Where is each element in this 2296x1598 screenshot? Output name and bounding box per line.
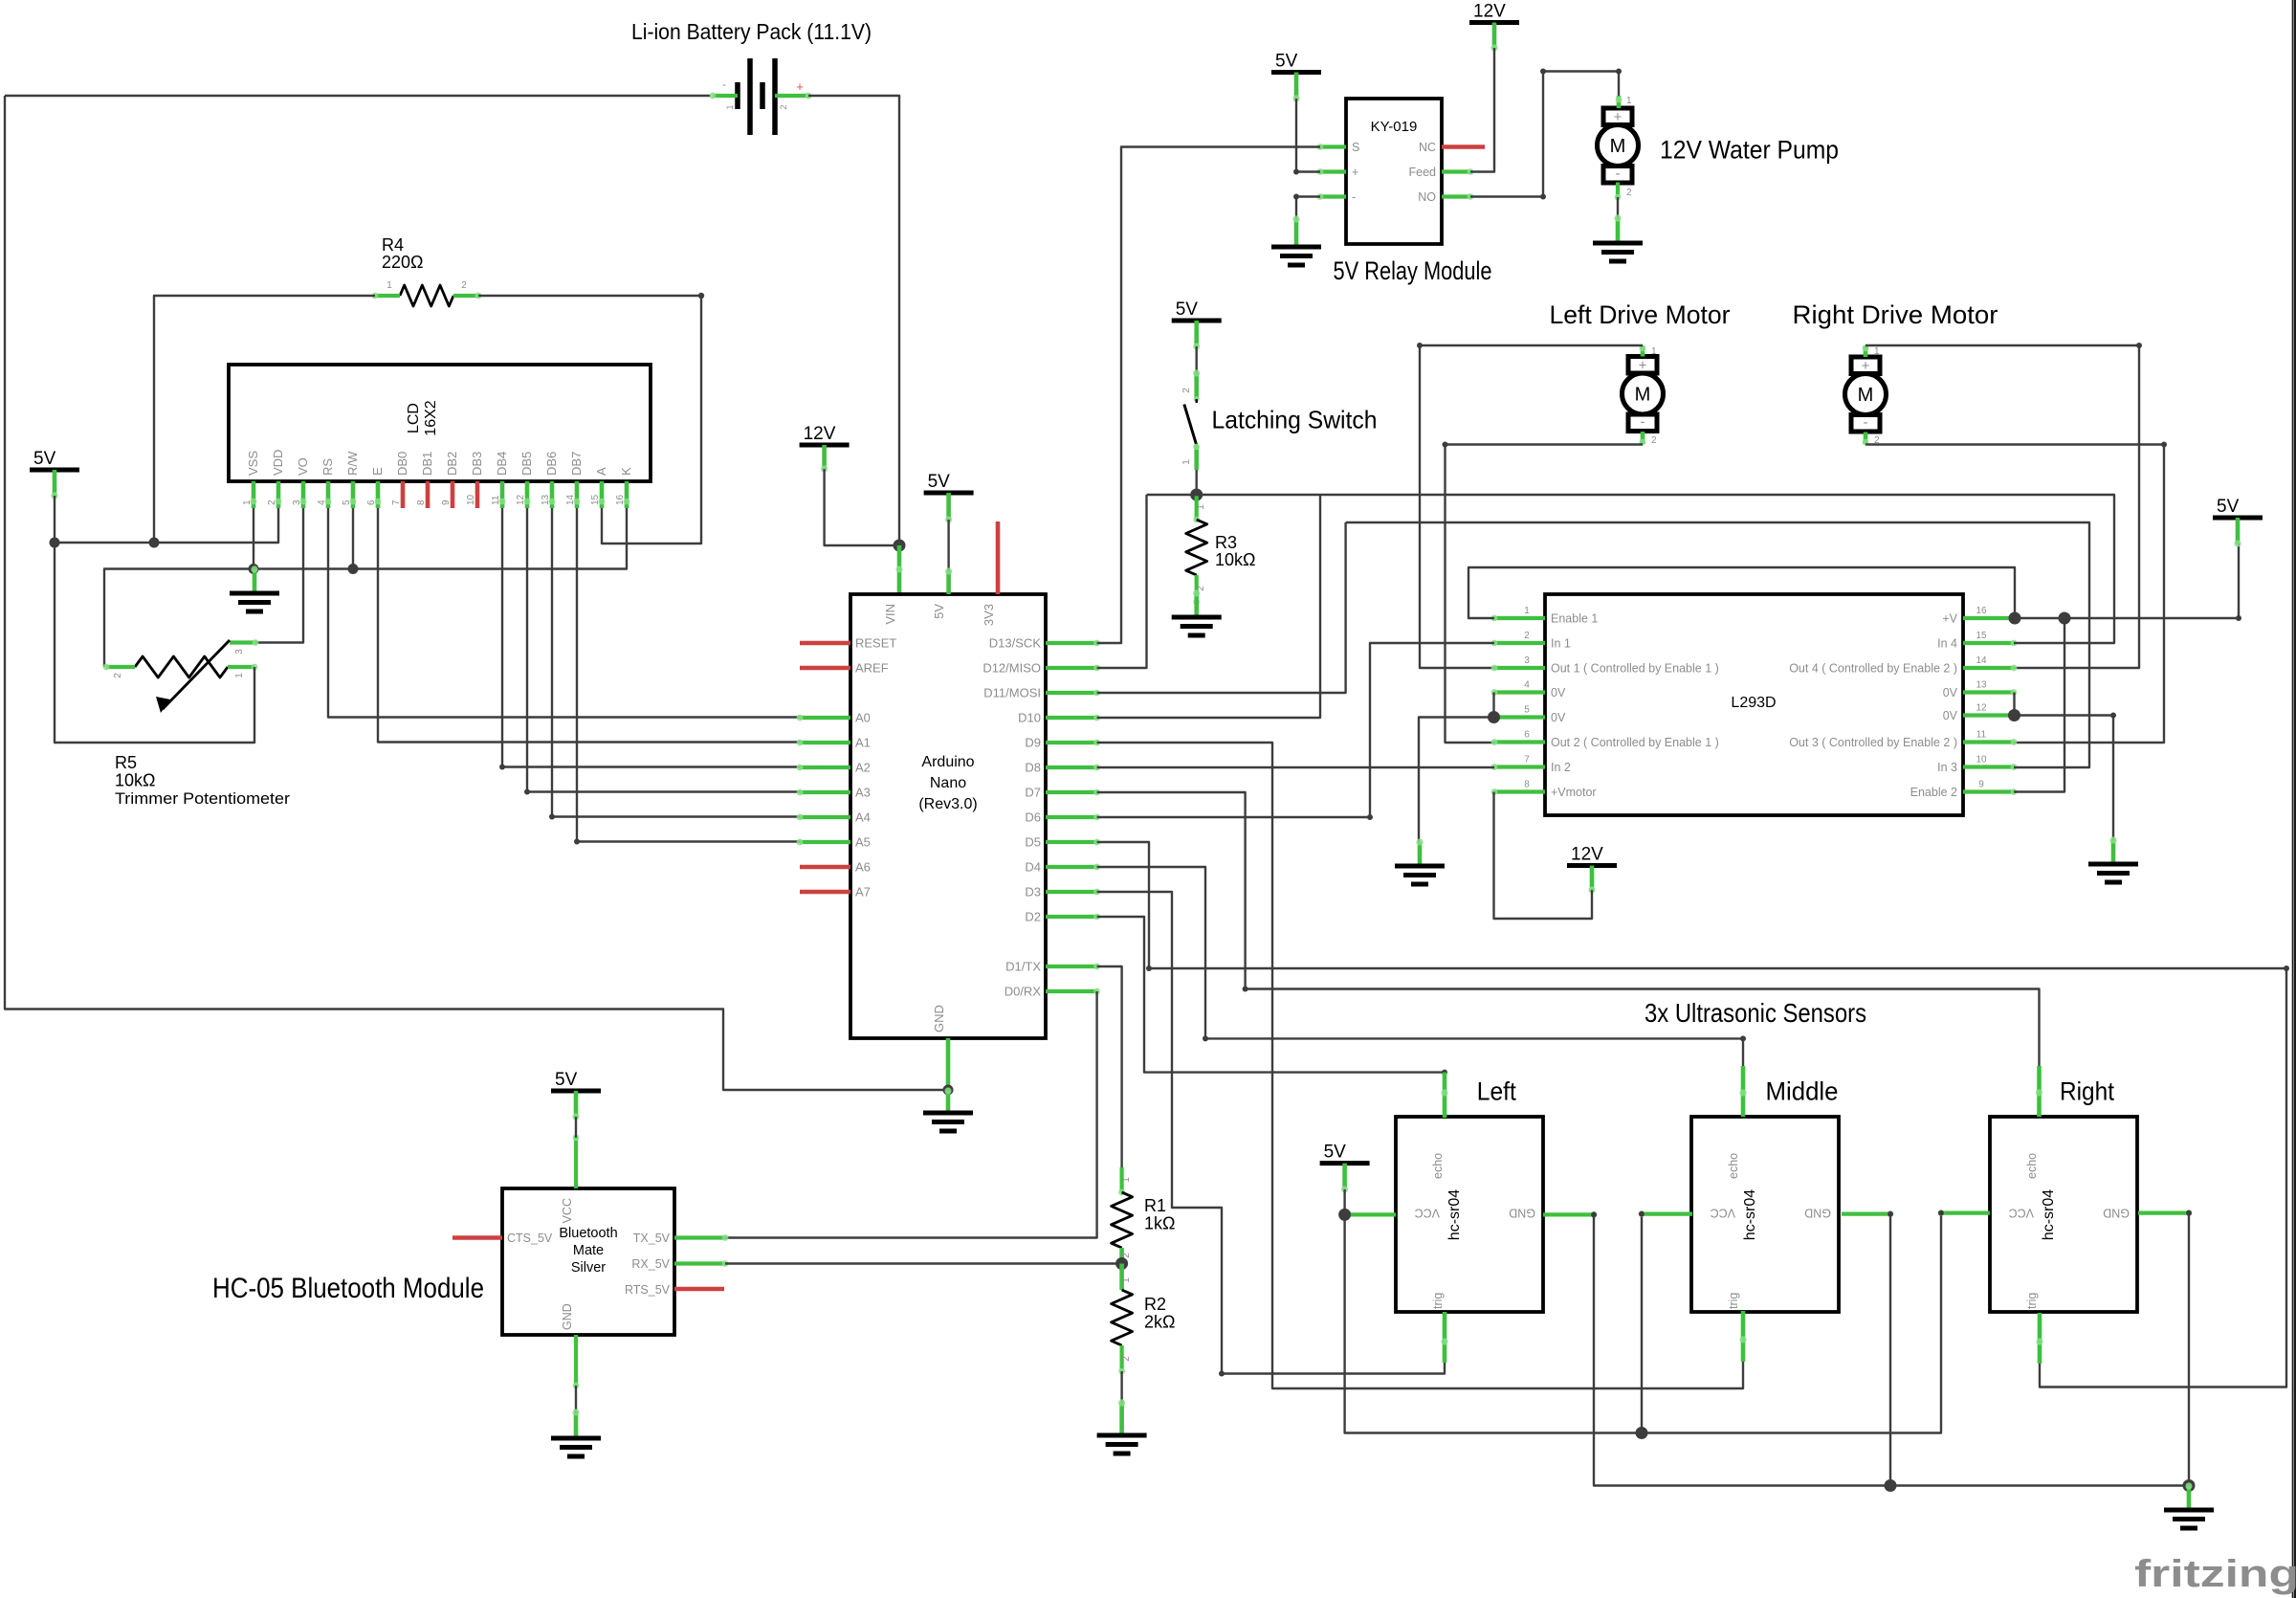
relay U2 KY-019 [1346, 99, 1442, 244]
svg-text:220Ω: 220Ω [382, 253, 424, 272]
svg-text:echo: echo [1727, 1153, 1740, 1179]
wire D0 to BT TX [725, 991, 1097, 1238]
svg-text:DB0: DB0 [395, 452, 409, 476]
svg-text:A0: A0 [855, 711, 871, 725]
svg-text:8: 8 [416, 499, 427, 505]
wire middle VCC riser [1641, 1214, 1643, 1433]
frame line right outer [2294, 0, 2296, 1598]
pump pin1 [1617, 96, 1622, 108]
wire VDD to 5V rail [55, 508, 278, 543]
svg-text:+Vmotor: +Vmotor [1551, 786, 1597, 799]
svg-text:VCC: VCC [561, 1198, 574, 1223]
svg-text:2: 2 [1524, 631, 1530, 641]
svg-text:9: 9 [1978, 780, 1984, 790]
svg-text:1: 1 [386, 280, 392, 291]
svg-text:1: 1 [1524, 606, 1530, 616]
svg-text:-: - [722, 78, 726, 91]
svg-text:4: 4 [1524, 680, 1530, 691]
svg-text:16: 16 [1976, 606, 1987, 616]
svg-text:2: 2 [1181, 388, 1192, 393]
svg-text:GND: GND [1804, 1207, 1831, 1220]
svg-text:NC: NC [1419, 141, 1436, 154]
wire relay S to D13 [1097, 147, 1320, 644]
wire DB5 to A3 [527, 508, 800, 792]
svg-text:12V Water Pump: 12V Water Pump [1660, 136, 1839, 165]
svg-text:trig: trig [1727, 1293, 1740, 1309]
svg-text:5V Relay Module: 5V Relay Module [1334, 256, 1492, 285]
svg-text:Right Drive Motor: Right Drive Motor [1793, 300, 1998, 329]
ground LCD/pot [253, 569, 257, 593]
wire relay + to 5V [1296, 99, 1320, 172]
svg-text:echo: echo [1431, 1153, 1445, 1179]
wire Out1 to left motor pin1 [1420, 345, 1643, 668]
svg-text:GND: GND [1509, 1207, 1535, 1220]
svg-text:DB2: DB2 [445, 452, 459, 476]
svg-text:-: - [1352, 190, 1356, 204]
wire R4 pin1 to 5V rail [154, 296, 375, 543]
svg-text:RTS_5V: RTS_5V [625, 1283, 671, 1297]
svg-text:hc-sr04: hc-sr04 [1446, 1189, 1463, 1240]
svg-text:GND: GND [932, 1005, 946, 1032]
svg-text:trig: trig [1431, 1293, 1445, 1309]
svg-text:D4: D4 [1025, 860, 1041, 875]
resistor R4 [400, 285, 453, 306]
bt U4 Bluetooth Mate Silver [502, 1188, 674, 1335]
wire BT GND down [575, 1386, 577, 1412]
svg-text:D1/TX: D1/TX [1005, 960, 1041, 974]
svg-text:5: 5 [1524, 705, 1530, 716]
svg-text:Latching Switch: Latching Switch [1212, 406, 1378, 434]
svg-text:trig: trig [2025, 1293, 2039, 1309]
wire pot pin1 to 5V rail [55, 543, 254, 743]
svg-text:D12/MISO: D12/MISO [982, 661, 1041, 676]
node R4-A junction [698, 293, 704, 299]
wire R4 pin2 to LCD A [478, 295, 701, 297]
svg-text:1: 1 [1874, 346, 1880, 357]
svg-text:VSS: VSS [246, 451, 260, 476]
sensor S-right hc-sr04 [1990, 1117, 2137, 1312]
svg-text:VDD: VDD [271, 450, 285, 476]
wire 5V pin [947, 520, 949, 571]
node switch junction [1190, 489, 1203, 501]
svg-text:D7: D7 [1025, 786, 1041, 800]
svg-text:A2: A2 [855, 761, 871, 775]
svg-text:0V: 0V [1943, 686, 1958, 699]
node 0V12 junction [2008, 709, 2020, 721]
svg-text:Arduino: Arduino [921, 754, 974, 770]
svg-text:1: 1 [1626, 96, 1632, 106]
battery BAT1 [735, 82, 740, 109]
svg-text:Mate: Mate [573, 1243, 604, 1258]
wire 0V4 to 0V5 [1492, 693, 1494, 718]
wire +Vmotor to 12V [1494, 792, 1593, 920]
ic U3 L293D [1545, 594, 1963, 815]
svg-text:HC-05 Bluetooth Module: HC-05 Bluetooth Module [212, 1273, 484, 1304]
svg-text:CTS_5V: CTS_5V [507, 1232, 553, 1245]
svg-text:A3: A3 [855, 786, 871, 800]
wire D3 to left trig [1097, 892, 1445, 1374]
svg-text:M: M [1610, 136, 1626, 157]
wire VIN [897, 545, 902, 594]
wire 12V to VIN junction [825, 469, 899, 545]
svg-text:KY-019: KY-019 [1371, 119, 1418, 135]
svg-text:1: 1 [1121, 1177, 1132, 1183]
wire D10 to In4 row [1097, 495, 1320, 718]
svg-text:GND: GND [561, 1303, 574, 1330]
mcu U1 Arduino Nano [850, 594, 1046, 1038]
power 5V (LCD area) [30, 468, 79, 473]
svg-text:12V: 12V [1571, 845, 1603, 865]
svg-text:VCC: VCC [1711, 1207, 1735, 1220]
node 5V rail corner [50, 538, 60, 548]
wire 5V down [54, 496, 55, 543]
svg-text:In 1: In 1 [1551, 637, 1571, 651]
wire sensor 5V rail [1345, 1213, 1941, 1433]
svg-text:echo: echo [2025, 1153, 2039, 1179]
svg-text:2: 2 [1121, 1356, 1132, 1362]
svg-text:DB4: DB4 [495, 452, 509, 476]
svg-text:-: - [1864, 414, 1868, 431]
svg-text:M: M [1858, 385, 1874, 406]
middle trig lead [1741, 1311, 1746, 1362]
frame line right inner [2292, 0, 2294, 1598]
svg-text:D5: D5 [1025, 835, 1041, 850]
power 5V (L293D) [2213, 516, 2263, 521]
motor M2 left drive [1628, 357, 1657, 374]
svg-text:D13/SCK: D13/SCK [989, 636, 1042, 651]
power 12V (relay feed) [1469, 20, 1519, 25]
svg-text:Nano: Nano [930, 775, 966, 791]
resistor R1 1k [1119, 1167, 1123, 1192]
wire NO to pump [1470, 72, 1619, 197]
svg-text:1kΩ: 1kΩ [1144, 1214, 1175, 1233]
svg-text:2: 2 [1626, 188, 1632, 198]
power 5V (sensors) [1320, 1161, 1370, 1165]
wire right GND riser [2188, 1213, 2190, 1486]
svg-text:10kΩ: 10kΩ [1215, 550, 1255, 569]
svg-text:3: 3 [234, 649, 245, 655]
svg-text:In 3: In 3 [1937, 761, 1957, 774]
svg-text:12V: 12V [804, 424, 836, 444]
svg-text:A5: A5 [855, 835, 871, 850]
svg-text:Enable 1: Enable 1 [1551, 612, 1598, 626]
svg-text:A1: A1 [855, 736, 871, 750]
svg-text:1: 1 [234, 673, 245, 678]
svg-text:12V: 12V [1473, 2, 1506, 22]
svg-text:2: 2 [461, 280, 467, 291]
wire GND pin down [946, 1038, 951, 1090]
power 12V (Vmotor) [1567, 863, 1617, 868]
svg-text:+: + [796, 79, 804, 94]
ground pump [1616, 218, 1621, 243]
ground sensors [2187, 1486, 2192, 1510]
svg-text:2: 2 [1651, 435, 1657, 446]
wire VSS to gnd bus [253, 508, 254, 569]
svg-text:R1: R1 [1144, 1196, 1166, 1215]
wire DB7 to A5 [577, 508, 800, 842]
svg-text:R4: R4 [382, 235, 404, 255]
svg-text:VCC: VCC [2009, 1207, 2034, 1220]
wire D5 to right trig [1097, 842, 2286, 1387]
svg-text:D6: D6 [1025, 810, 1041, 825]
svg-text:2: 2 [1121, 1253, 1132, 1258]
svg-text:Middle: Middle [1766, 1077, 1839, 1106]
wire D4 to middle echo [1097, 867, 1743, 1066]
power 5V (Arduino) [924, 491, 974, 496]
wire switch pin1 [1194, 445, 1199, 471]
wire Out4 to right motor pin1 [1865, 345, 2139, 668]
node +V j2 [2059, 612, 2071, 625]
svg-text:8: 8 [1524, 780, 1530, 790]
svg-text:M: M [1635, 385, 1651, 406]
wire DB6 to A4 [552, 508, 800, 817]
node R/W gnd junction [348, 564, 359, 574]
wire D2 to left echo [1097, 917, 1445, 1118]
node left VCC junction [1338, 1209, 1351, 1221]
node divider junction [1115, 1257, 1128, 1270]
svg-text:5V: 5V [928, 472, 951, 492]
svg-text:RX_5V: RX_5V [631, 1257, 670, 1271]
wire BT VCC to 5V [575, 1117, 577, 1138]
svg-text:K: K [619, 467, 633, 476]
pin 3V3 red stub [996, 522, 1001, 594]
svg-text:3: 3 [1524, 655, 1530, 666]
svg-text:16X2: 16X2 [423, 400, 439, 435]
wire Feed to 12V [1470, 48, 1494, 172]
svg-text:A7: A7 [855, 885, 871, 899]
svg-text:L293D: L293D [1731, 695, 1776, 711]
wire switch pin2 [1195, 346, 1197, 373]
wire 0V12 to ground [2015, 716, 2114, 841]
svg-text:Left: Left [1477, 1077, 1517, 1106]
node middle VCC junction [1636, 1427, 1648, 1439]
svg-text:RESET: RESET [855, 636, 896, 651]
power 5V (relay) [1271, 70, 1321, 75]
svg-text:A4: A4 [855, 810, 871, 825]
svg-text:5V: 5V [33, 449, 56, 469]
wire D7 to right echo [1097, 792, 2040, 1066]
svg-text:NO: NO [1418, 190, 1436, 204]
svg-text:A6: A6 [855, 860, 871, 875]
wire LCD-A riser [602, 296, 701, 544]
svg-text:7: 7 [391, 499, 402, 505]
wire Enable2 to +V [2014, 618, 2064, 792]
svg-text:0V: 0V [1943, 709, 1958, 722]
wire middle GND riser [1889, 1214, 1891, 1486]
svg-text:D8: D8 [1025, 761, 1041, 775]
wire left GND riser [1594, 1214, 2189, 1485]
svg-text:Feed: Feed [1409, 166, 1437, 179]
wire row517 switch/D10/In4 [1147, 495, 2115, 643]
svg-text:1: 1 [1196, 504, 1206, 510]
svg-text:9: 9 [441, 499, 452, 505]
resistor R3 [1195, 495, 1199, 520]
wire 0V13 to 0V12 [2013, 693, 2015, 716]
svg-text:DB5: DB5 [519, 452, 534, 476]
svg-text:2kΩ: 2kΩ [1144, 1313, 1175, 1332]
svg-text:R3: R3 [1215, 533, 1237, 552]
svg-text:DB6: DB6 [544, 452, 559, 476]
lcd LCD1 16X2 [229, 365, 651, 481]
svg-text:AREF: AREF [855, 661, 889, 676]
svg-text:10: 10 [1976, 755, 1987, 766]
svg-text:DB1: DB1 [420, 452, 434, 476]
svg-text:5V: 5V [555, 1070, 578, 1090]
ground L293D left 0V [1418, 842, 1423, 866]
svg-text:D0/RX: D0/RX [1004, 985, 1042, 999]
node R4/5V rail junction [149, 538, 160, 548]
svg-text:Right: Right [2060, 1077, 2115, 1106]
wire R2 to ground [1120, 1371, 1122, 1403]
left echo lead [1443, 1073, 1447, 1118]
svg-text:Out 4 ( Controlled by Enable 2: Out 4 ( Controlled by Enable 2 ) [1789, 662, 1957, 676]
svg-text:-: - [1616, 166, 1621, 182]
wire RS to A0 [328, 508, 800, 718]
node VSS gnd junction [249, 564, 259, 574]
svg-text:6: 6 [1524, 730, 1530, 741]
node sensors GND junction [2183, 1479, 2196, 1492]
svg-text:-: - [1641, 414, 1645, 431]
wire 5V to left VCC junction [1343, 1189, 1345, 1214]
power 5V (switch) [1172, 319, 1222, 323]
node +V j1 [2009, 612, 2021, 625]
wire Out2 to left motor pin2 [1446, 445, 1644, 744]
wire R/W to gnd bus [352, 508, 354, 569]
motor M1 water pump [1603, 108, 1632, 125]
wire D11 to In3 row [1097, 522, 1346, 693]
svg-text:2: 2 [779, 104, 788, 109]
motor right pin2 [1864, 433, 1868, 445]
svg-text:VO: VO [296, 457, 310, 476]
wire +V to 5V [2014, 544, 2239, 618]
wire D9 to middle trig [1097, 743, 1743, 1388]
svg-text:0V: 0V [1551, 686, 1566, 699]
svg-text:VCC: VCC [1415, 1207, 1440, 1220]
svg-text:7: 7 [1524, 755, 1530, 766]
svg-text:5V: 5V [1275, 52, 1298, 72]
motor right pin1 [1864, 345, 1868, 357]
sensor S-left hc-sr04 [1396, 1117, 1543, 1312]
svg-text:D2: D2 [1025, 910, 1041, 924]
svg-text:Left Drive Motor: Left Drive Motor [1550, 300, 1731, 329]
svg-text:D9: D9 [1025, 736, 1041, 750]
svg-text:5V: 5V [2217, 497, 2240, 517]
svg-text:In 4: In 4 [1937, 637, 1957, 651]
svg-text:14: 14 [1976, 655, 1987, 666]
middle echo lead [1741, 1066, 1746, 1117]
ground BT [551, 1436, 601, 1441]
svg-text:10kΩ: 10kΩ [115, 771, 155, 790]
svg-text:D10: D10 [1018, 711, 1041, 725]
svg-text:2: 2 [113, 673, 123, 678]
wire E to A1 [378, 508, 800, 743]
svg-text:E: E [370, 467, 385, 476]
left trig lead [1443, 1312, 1447, 1363]
svg-text:GND: GND [2103, 1207, 2130, 1220]
motor left pin2 [1641, 432, 1645, 445]
svg-text:DB3: DB3 [470, 452, 484, 476]
svg-text:R/W: R/W [345, 451, 360, 476]
svg-text:5V: 5V [932, 604, 946, 619]
ground L293D right 0V [2111, 840, 2116, 864]
svg-text:11: 11 [1976, 730, 1987, 741]
svg-text:1: 1 [725, 104, 735, 109]
ground R3 [1194, 593, 1199, 617]
resistor R2 2k [1119, 1264, 1124, 1291]
wire DB4 to A2 [502, 508, 800, 767]
svg-text:1: 1 [1181, 459, 1192, 465]
wire relay - to gnd [1296, 197, 1320, 220]
svg-text:DB7: DB7 [569, 452, 584, 476]
svg-text:R2: R2 [1144, 1295, 1166, 1314]
svg-text:D11/MOSI: D11/MOSI [983, 686, 1041, 700]
svg-text:+: + [1352, 166, 1358, 179]
svg-text:RS: RS [320, 458, 335, 476]
ground relay [1294, 219, 1299, 247]
sensor S-middle hc-sr04 [1691, 1117, 1839, 1312]
svg-text:15: 15 [1976, 631, 1987, 641]
ground Arduino GND [946, 1091, 951, 1113]
right trig lead [2038, 1313, 2042, 1364]
svg-text:hc-sr04: hc-sr04 [1742, 1189, 1758, 1240]
svg-text:5V: 5V [1324, 1143, 1347, 1163]
svg-text:VIN: VIN [883, 604, 897, 625]
power 12V (VIN) [800, 443, 850, 448]
wire battery minus left-edge vertical [5, 96, 948, 1090]
pump pin2 wire [1616, 183, 1620, 198]
wire VO to pot wiper [255, 508, 303, 643]
svg-text:3V3: 3V3 [982, 604, 996, 626]
svg-text:hc-sr04: hc-sr04 [2041, 1189, 2057, 1240]
power 5V (BT) [551, 1089, 601, 1094]
wire Enable1 to +V [1468, 567, 2015, 618]
svg-text:Bluetooth: Bluetooth [559, 1226, 617, 1241]
right VCC lead [1941, 1210, 1990, 1214]
wire D8 to In2 [1097, 766, 1494, 768]
svg-text:13: 13 [1976, 680, 1987, 691]
right echo lead [2037, 1066, 2042, 1117]
wire battery minus to left edge [5, 95, 711, 97]
node GND junction [943, 1085, 954, 1096]
middle VCC lead [1642, 1211, 1692, 1215]
svg-text:+V: +V [1942, 612, 1957, 626]
wire Out3 to right motor pin2 [1865, 445, 2164, 744]
svg-text:In 2: In 2 [1551, 761, 1571, 774]
svg-text:D3: D3 [1025, 885, 1041, 899]
svg-text:Li-ion Battery Pack (11.1V): Li-ion Battery Pack (11.1V) [631, 19, 872, 44]
left GND lead [1543, 1212, 1594, 1216]
svg-text:(Rev3.0): (Rev3.0) [918, 796, 977, 812]
svg-text:1: 1 [1651, 346, 1657, 357]
switch S1 latching [1184, 405, 1197, 445]
svg-text:Out 3 ( Controlled by Enable 2: Out 3 ( Controlled by Enable 2 ) [1789, 736, 1957, 749]
wire D1 to R1 [1097, 966, 1122, 1167]
svg-text:S: S [1352, 141, 1359, 154]
svg-text:3x Ultrasonic Sensors: 3x Ultrasonic Sensors [1645, 998, 1866, 1028]
node 0V5 junction [1488, 711, 1500, 723]
wire K to gnd bus [104, 508, 627, 667]
motor left pin1 [1641, 345, 1645, 357]
svg-text:5V: 5V [1176, 300, 1199, 320]
svg-text:Trimmer Potentiometer: Trimmer Potentiometer [115, 790, 291, 808]
wire D6 to In1 [1097, 643, 1494, 817]
middle GND lead [1842, 1211, 1890, 1215]
node middle GND junction [1885, 1479, 1897, 1492]
svg-text:Out 1 ( Controlled by Enable 1: Out 1 ( Controlled by Enable 1 ) [1551, 662, 1719, 676]
node battery-plus 12V junction [894, 540, 906, 552]
svg-text:R5: R5 [115, 753, 137, 772]
left VCC lead [1345, 1212, 1396, 1216]
